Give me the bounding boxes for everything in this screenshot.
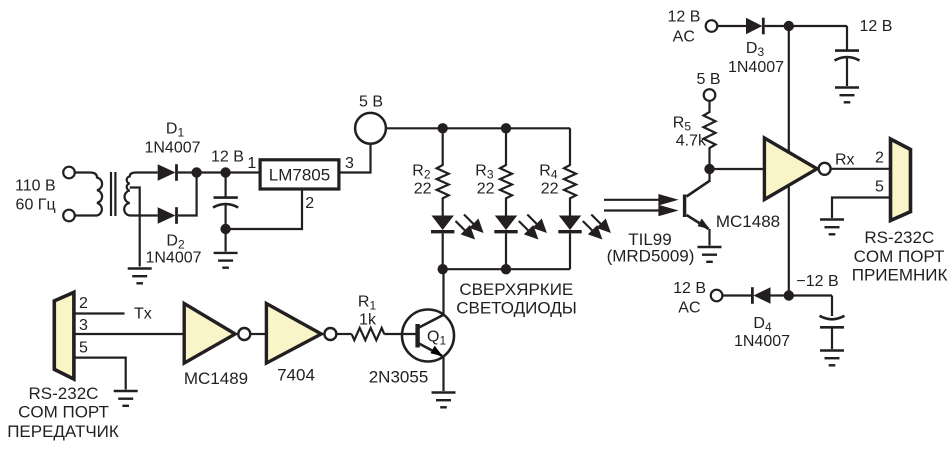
svg-text:5: 5	[875, 179, 884, 196]
terminal 12V AC top	[706, 20, 718, 32]
transistor Q1	[402, 310, 454, 362]
svg-text:ПЕРЕДАТЧИК: ПЕРЕДАТЧИК	[7, 422, 119, 441]
svg-text:MC1488: MC1488	[716, 212, 780, 231]
line driver U4 MC1488	[764, 138, 830, 200]
node bottom bus A	[438, 264, 448, 274]
wire center tap	[130, 188, 140, 267]
node bottom bus B	[501, 264, 511, 274]
svg-text:7404: 7404	[277, 366, 315, 385]
svg-text:1N4007: 1N4007	[728, 59, 784, 76]
transformer T1 primary	[76, 173, 103, 216]
terminal J1b 110V bottom	[63, 210, 75, 222]
wire LED top bus	[386, 127, 570, 129]
LED D6 emission arrows	[519, 215, 545, 238]
svg-text:12 В: 12 В	[673, 280, 706, 297]
ground (center tap)	[128, 269, 152, 284]
svg-text:AC: AC	[678, 299, 700, 316]
wire LED bottom bus	[443, 268, 570, 270]
resistor R4	[564, 128, 576, 215]
wire C1 to ground	[225, 229, 227, 252]
label D1 1N4007	[144, 121, 200, 157]
wire Rx to connector	[831, 168, 891, 170]
LED D7	[558, 216, 581, 270]
capacitor C2	[835, 26, 860, 86]
svg-text:−12 В: −12 В	[796, 273, 838, 290]
transformer T1 secondary	[124, 173, 158, 216]
resistor R5	[704, 101, 716, 169]
LED D7 emission arrows	[583, 215, 609, 238]
LED D6	[494, 216, 517, 270]
wire D3 to +12V node	[765, 25, 847, 27]
svg-text:12 В: 12 В	[211, 149, 244, 166]
label D4 1N4007	[734, 315, 790, 350]
wire 7404 to R1	[337, 333, 352, 335]
wire D4 to -12V node	[771, 294, 833, 296]
ground (receiver pin5)	[820, 220, 844, 235]
label R5 4.7k	[673, 115, 707, 150]
phototransistor Q2 TIL99	[685, 169, 711, 246]
node R5 / collector	[704, 164, 714, 174]
node 12V	[220, 167, 230, 177]
terminal 5V right	[704, 89, 716, 101]
ground (C3)	[820, 351, 844, 366]
terminal 5V output	[355, 113, 386, 144]
label R3 22	[475, 163, 494, 198]
ground (Q1 emitter)	[432, 393, 456, 408]
label 12V AC top	[668, 9, 701, 46]
diode D3	[746, 18, 763, 35]
terminal J1a 110V top	[63, 167, 75, 179]
svg-text:2: 2	[305, 195, 314, 212]
svg-text:110 В: 110 В	[15, 177, 56, 194]
label 12V AC bottom	[673, 280, 706, 317]
ground (pin5 transmitter)	[114, 391, 138, 406]
node top bus B	[501, 123, 511, 133]
svg-text:60 Гц: 60 Гц	[16, 197, 56, 214]
LED D5	[431, 216, 454, 270]
svg-text:2: 2	[79, 295, 88, 312]
capacitor C3	[820, 296, 845, 350]
resistor R3	[500, 128, 512, 215]
wire supply rail vertical	[788, 26, 790, 296]
svg-text:3: 3	[345, 155, 354, 172]
svg-text:22: 22	[541, 181, 559, 198]
svg-text:5 В: 5 В	[359, 94, 383, 111]
label D3 1N4007	[728, 40, 784, 76]
svg-text:COM ПОРТ: COM ПОРТ	[854, 247, 945, 266]
svg-text:СВЕТОДИОДЫ: СВЕТОДИОДЫ	[456, 299, 577, 318]
svg-text:1: 1	[247, 155, 256, 172]
label R4 22	[539, 163, 558, 198]
svg-text:Rx: Rx	[835, 152, 855, 169]
svg-text:3: 3	[79, 317, 88, 334]
wire pin3 to MC1489	[74, 333, 184, 335]
light arrows LED to phototransistor	[604, 196, 675, 215]
wire R1 to Q1 base	[384, 333, 416, 335]
wire pin2 of regulator	[226, 189, 302, 229]
svg-text:1k: 1k	[359, 312, 377, 329]
resistor R2	[437, 128, 449, 215]
label RS-232C COM PORT transmitter	[7, 384, 119, 441]
node top bus A	[438, 123, 448, 133]
svg-text:COM ПОРТ: COM ПОРТ	[18, 402, 109, 421]
connector P2 RS-232 receiver	[891, 139, 911, 221]
inverter U3 7404	[266, 304, 336, 364]
svg-text:LM7805: LM7805	[269, 166, 330, 185]
svg-text:1N4007: 1N4007	[145, 249, 201, 266]
node +12V rail	[784, 21, 794, 31]
wire pin5 to ground	[74, 358, 126, 390]
svg-text:5: 5	[79, 340, 88, 357]
LED D5 emission arrows	[456, 215, 482, 238]
svg-text:Tx: Tx	[134, 306, 152, 323]
wire pin3 to 5V terminal	[339, 144, 371, 173]
svg-text:22: 22	[414, 181, 432, 198]
wire node to MC1488 input	[710, 168, 765, 170]
label 12V and pin 1	[211, 149, 256, 173]
wire Q1 emitter to ground	[442, 357, 444, 392]
svg-text:AC: AC	[673, 29, 695, 46]
transformer T1 core	[111, 172, 115, 216]
wire 12VAC to D3	[717, 25, 746, 27]
svg-text:RS-232C: RS-232C	[29, 384, 99, 403]
svg-text:1N4007: 1N4007	[144, 140, 200, 157]
svg-text:RS-232C: RS-232C	[864, 228, 934, 247]
node C1 bottom	[220, 224, 230, 234]
ground (C1)	[214, 253, 238, 268]
diode D2	[158, 207, 177, 224]
regulator U1 LM7805	[260, 160, 339, 189]
label RS-232C COM PORT receiver	[852, 228, 948, 285]
terminal 12V AC bottom	[711, 290, 723, 302]
node -12V rail	[784, 290, 794, 300]
ground (C2)	[835, 88, 859, 103]
capacitor C1	[213, 173, 238, 230]
svg-text:5 В: 5 В	[696, 71, 720, 88]
svg-text:12 В: 12 В	[860, 18, 893, 35]
diode D4	[752, 287, 770, 304]
resistor R1	[352, 328, 385, 340]
node (rectifier junction)	[191, 167, 201, 177]
label R2 22	[412, 163, 431, 198]
ground (TIL99 emitter)	[698, 247, 722, 262]
svg-text:4.7k: 4.7k	[676, 133, 707, 150]
wire 12VAC to D4	[722, 294, 752, 296]
wire D2 output up	[178, 173, 197, 216]
wire D1 to regulator input	[178, 171, 260, 173]
label TIL99 (MRD5009)	[607, 230, 695, 266]
diode D1	[158, 164, 177, 181]
svg-text:ПРИЕМНИК: ПРИЕМНИК	[852, 266, 948, 285]
svg-text:СВЕРХЯРКИЕ: СВЕРХЯРКИЕ	[459, 280, 573, 299]
svg-text:2: 2	[875, 149, 884, 166]
label R1 1k	[358, 294, 377, 329]
wire receiver pin5 to ground	[832, 198, 891, 219]
svg-text:1N4007: 1N4007	[734, 333, 790, 350]
wire Q1 collector to LED bus	[442, 269, 444, 315]
label pins 2 3 5	[79, 295, 88, 357]
svg-text:22: 22	[477, 181, 495, 198]
label D2 1N4007	[145, 233, 201, 267]
svg-text:MC1489: MC1489	[184, 369, 248, 388]
wire pin2 Tx	[74, 312, 125, 314]
label 110V 60Hz	[15, 177, 56, 213]
svg-text:(MRD5009): (MRD5009)	[607, 247, 695, 266]
svg-text:12 В: 12 В	[668, 9, 701, 26]
svg-text:2N3055: 2N3055	[369, 368, 429, 387]
connector P1 RS-232 transmitter	[54, 292, 74, 379]
inverter U2 MC1489	[184, 304, 250, 364]
label LEDs	[456, 280, 577, 317]
wire MC1489 to 7404	[251, 333, 267, 335]
